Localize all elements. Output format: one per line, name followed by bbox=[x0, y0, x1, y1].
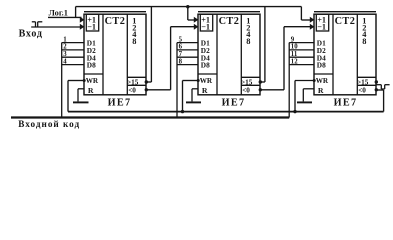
wire: DD2 D2 input stub (pin 6) bbox=[177, 49, 198, 51]
node: DD3 WR input junction bbox=[313, 79, 316, 82]
svg-text:Вход: Вход bbox=[19, 28, 43, 39]
DD2 control input labels WR / R bbox=[200, 77, 213, 95]
DD3 control input labels WR / R bbox=[316, 77, 329, 95]
svg-text:7: 7 bbox=[179, 51, 183, 58]
output pulse symbol at DD3 >15 bbox=[376, 85, 390, 89]
wire: DD2 D8 input stub (pin 8) bbox=[177, 64, 198, 66]
DD3 count input labels +1 / −1 bbox=[317, 16, 326, 32]
wire: DD2 D4 input stub (pin 7) bbox=[177, 56, 198, 58]
wire: DD2 >15 output up to top rail bbox=[261, 7, 265, 82]
svg-text:3: 3 bbox=[63, 51, 67, 58]
wire: DD1 <0 output to DD2 -1 input bbox=[147, 27, 196, 90]
node: DD3 <0 output junction bbox=[375, 88, 378, 91]
svg-text:CT2: CT2 bbox=[105, 16, 126, 27]
counter DD3 box (СТ2) bbox=[314, 12, 376, 95]
svg-text:>15: >15 bbox=[241, 79, 253, 87]
node: DD1 WR input junction bbox=[83, 79, 86, 82]
DD2 +1 dynamic input arrow bbox=[194, 17, 199, 23]
wire: DD1 data input bus vertical bbox=[61, 43, 63, 118]
svg-text:9: 9 bbox=[291, 37, 295, 44]
wire: DD3 D8 input stub (pin 12) bbox=[289, 64, 314, 66]
wire: DD1 D1 input stub (pin 1) bbox=[62, 42, 84, 44]
DD3 -1 dynamic input arrow bbox=[310, 24, 315, 30]
DD2 data input labels D1 D2 D4 D8 bbox=[201, 39, 210, 70]
svg-text:−1: −1 bbox=[87, 22, 96, 31]
wire: input code bus (Входной код) bbox=[11, 116, 289, 118]
DD1 +1 dynamic input arrow bbox=[80, 17, 85, 23]
svg-text:WR: WR bbox=[200, 77, 213, 85]
DD1 control input labels WR / R bbox=[86, 77, 99, 95]
node: DD1 >15 output junction bbox=[145, 80, 148, 83]
svg-text:5: 5 bbox=[179, 37, 183, 44]
wire: Лог.1 net horizontal rail (carry chain top rail) bbox=[76, 6, 302, 8]
DD2 count input labels +1 / −1 bbox=[201, 16, 210, 32]
DD3 function label CT2 bbox=[335, 16, 356, 27]
svg-text:ИЕ7: ИЕ7 bbox=[222, 98, 246, 109]
DD3 type label ИЕ7 bbox=[334, 98, 358, 109]
wire: DD1 WR riser from feedback rail bbox=[68, 81, 84, 112]
svg-text:1: 1 bbox=[63, 37, 67, 44]
wire: DD2 WR riser from feedback rail bbox=[183, 81, 199, 112]
wire: DD3 D2 input stub (pin 10) bbox=[289, 49, 314, 51]
svg-text:8: 8 bbox=[132, 37, 136, 46]
node: DD2 <0 output junction bbox=[259, 88, 262, 91]
svg-text:<0: <0 bbox=[128, 86, 136, 94]
node: DD1 <0 output junction bbox=[145, 88, 148, 91]
DD1 carry/borrow output labels >15 / <0 bbox=[127, 79, 139, 95]
wire: DD3 R input to ground bbox=[303, 89, 314, 102]
svg-text:Лог.1: Лог.1 bbox=[49, 8, 68, 17]
svg-text:ИЕ7: ИЕ7 bbox=[334, 98, 358, 109]
svg-text:R: R bbox=[202, 86, 208, 95]
label Входной код (input code) bbox=[18, 119, 80, 129]
node: DD2 WR input junction bbox=[197, 79, 200, 82]
svg-text:8: 8 bbox=[362, 37, 366, 46]
svg-text:11: 11 bbox=[291, 51, 298, 58]
DD1 count input labels +1 / −1 bbox=[87, 16, 96, 32]
node: DD2 >15 output junction bbox=[259, 80, 262, 83]
wire: DD1 >15 output up to top rail bbox=[147, 7, 152, 82]
node: DD3 >15 output junction bbox=[375, 80, 378, 83]
wire: DD3 <0 output down to feedback rail bbox=[376, 90, 384, 112]
ground (DD3 R input) bbox=[297, 101, 312, 103]
DD3 data input labels D1 D2 D4 D8 bbox=[317, 39, 326, 70]
wire: DD3 D4 input stub (pin 11) bbox=[289, 56, 314, 58]
DD3 carry/borrow output labels >15 / <0 bbox=[357, 79, 369, 95]
svg-text:10: 10 bbox=[291, 44, 298, 51]
svg-text:R: R bbox=[88, 86, 94, 95]
DD1 -1 dynamic input arrow bbox=[80, 24, 85, 30]
wire: Лог.1 to +1 input of DD1 bbox=[48, 16, 82, 18]
svg-text:D8: D8 bbox=[87, 61, 96, 70]
svg-text:−1: −1 bbox=[317, 22, 326, 31]
svg-text:WR: WR bbox=[86, 77, 99, 85]
pin numbers 9, 10, 11, 12 of DD3 bbox=[291, 37, 298, 66]
wire: DD1 D8 input stub (pin 4) bbox=[62, 64, 84, 66]
node: junction of top rail and DD2 +1 riser bbox=[186, 5, 189, 8]
wire: DD1 D2 input stub (pin 2) bbox=[62, 49, 84, 51]
wire: Вход to -1 input of DD1 bbox=[31, 26, 81, 28]
wire: DD2 R input to ground bbox=[192, 89, 198, 102]
counter DD1 box (СТ2) bbox=[84, 12, 146, 95]
svg-text:>15: >15 bbox=[357, 79, 369, 87]
svg-text:CT2: CT2 bbox=[219, 16, 240, 27]
svg-text:D8: D8 bbox=[201, 61, 210, 70]
svg-text:Входной код: Входной код bbox=[18, 119, 80, 129]
DD2 function label CT2 bbox=[219, 16, 240, 27]
svg-text:−1: −1 bbox=[201, 22, 210, 31]
wire: Лог.1 riser to top rail bbox=[75, 7, 77, 18]
wire: DD2 data input bus vertical bbox=[176, 43, 178, 118]
DD2 type label ИЕ7 bbox=[222, 98, 246, 109]
DD1 output weight labels 1 2 4 8 bbox=[132, 17, 137, 46]
DD3 +1 dynamic input arrow bbox=[310, 17, 315, 23]
label Лог.1 (logic 1 source) bbox=[49, 8, 68, 17]
svg-text:ИЕ7: ИЕ7 bbox=[108, 98, 132, 109]
wire: DD2 D1 input stub (pin 5) bbox=[177, 42, 198, 44]
counter DD2 box (СТ2) bbox=[198, 12, 260, 95]
svg-text:2: 2 bbox=[63, 44, 67, 51]
pin numbers 5, 6, 7, 8 of DD2 bbox=[179, 37, 183, 66]
DD1 data input labels D1 D2 D4 D8 bbox=[87, 39, 96, 70]
ground (DD2 R input) bbox=[186, 101, 201, 103]
wire: WR common feedback rail bbox=[68, 111, 384, 113]
ground (DD1 R input) bbox=[73, 101, 89, 103]
DD2 carry/borrow output labels >15 / <0 bbox=[241, 79, 253, 95]
DD1 function label CT2 bbox=[105, 16, 126, 27]
label Вход (input) bbox=[19, 28, 43, 39]
wire: DD1 R input to ground bbox=[78, 89, 84, 102]
wire: DD3 D1 input stub (pin 9) bbox=[289, 42, 314, 44]
DD2 -1 dynamic input arrow bbox=[194, 24, 199, 30]
svg-text:6: 6 bbox=[179, 44, 183, 51]
node: junction DD2 WR riser / feedback rail bbox=[181, 110, 184, 113]
DD1 type label ИЕ7 bbox=[108, 98, 132, 109]
DD2 output weight labels 1 2 4 8 bbox=[246, 17, 251, 46]
svg-text:R: R bbox=[318, 86, 324, 95]
svg-text:WR: WR bbox=[316, 77, 329, 85]
svg-text:D8: D8 bbox=[317, 61, 326, 70]
svg-text:>15: >15 bbox=[127, 79, 139, 87]
svg-text:12: 12 bbox=[291, 58, 298, 65]
node: junction DD3 WR riser / feedback rail bbox=[293, 110, 296, 113]
wire: DD3 WR riser from feedback rail bbox=[295, 81, 314, 112]
wire: top rail riser down to DD2 +1 input bbox=[188, 7, 195, 20]
svg-text:8: 8 bbox=[246, 37, 250, 46]
pin numbers 1, 2, 3, 4 of DD1 bbox=[63, 37, 67, 66]
wire: DD1 D4 input stub (pin 3) bbox=[62, 56, 84, 58]
wire: top rail corner down to DD3 +1 input bbox=[301, 7, 311, 20]
svg-text:<0: <0 bbox=[358, 86, 366, 94]
svg-text:4: 4 bbox=[63, 58, 67, 65]
svg-text:<0: <0 bbox=[242, 86, 250, 94]
DD3 output weight labels 1 2 4 8 bbox=[362, 17, 367, 46]
svg-text:8: 8 bbox=[179, 58, 183, 65]
svg-text:CT2: CT2 bbox=[335, 16, 356, 27]
wire: DD2 <0 output to DD3 -1 input bbox=[261, 27, 312, 90]
wire: DD3 data input bus vertical bbox=[288, 43, 290, 118]
input pulse symbol on Вход wire bbox=[32, 22, 43, 27]
